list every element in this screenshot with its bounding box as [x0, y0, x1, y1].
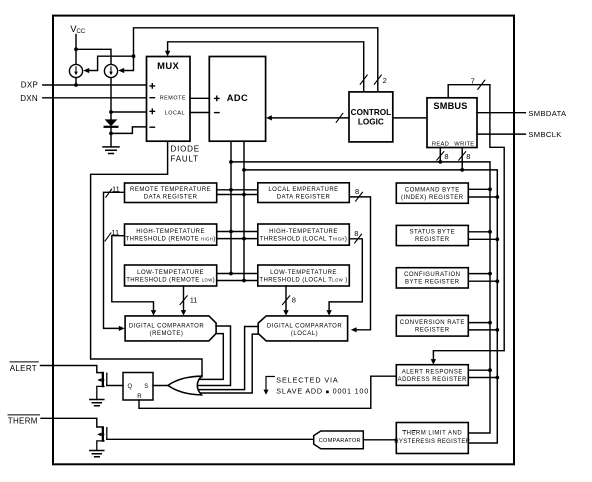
pin SMBCLK: [477, 133, 525, 135]
svg-text:REMOTE TEMPERATURE: REMOTE TEMPERATURE: [130, 187, 211, 193]
label SELECTED VIA SLAVE ADD: [276, 375, 369, 395]
wire remote comparator out1: [199, 326, 259, 393]
svg-text:ALERT: ALERT: [10, 364, 37, 373]
wire configuration stubs: [468, 274, 497, 282]
svg-text:THRESHOLD (REMOTE LOW): THRESHOLD (REMOTE LOW): [126, 278, 215, 284]
wire therm comparator to gate: [107, 438, 314, 440]
register HIGH THRESHOLD LOCAL: [258, 224, 350, 245]
register STATUS BYTE: [396, 225, 468, 245]
wire ADC data A: [229, 141, 233, 275]
wire or-gate to latch S: [107, 376, 397, 408]
block CONTROL LOGIC: [349, 92, 393, 142]
Vcc label: [70, 24, 86, 35]
wire 11-bus low-threshold to comparator: [180, 286, 187, 316]
svg-text:CONTROL: CONTROL: [351, 108, 391, 117]
comparator digital remote: [125, 316, 216, 341]
svg-text:8: 8: [444, 152, 448, 161]
comparator THERM: [314, 431, 364, 449]
register LOW THRESHOLD LOCAL: [258, 265, 350, 286]
or-gate U1: [168, 376, 202, 395]
wire command stubs: [468, 189, 497, 197]
register COMMAND BYTE: [396, 183, 468, 203]
wire DXP: [43, 84, 147, 86]
latch U2: [123, 373, 153, 401]
wire control-logic to current sources: [124, 28, 378, 92]
wire 8-bus local data to comparator: [349, 192, 370, 332]
svg-text:2: 2: [383, 76, 387, 85]
arrow selected-via pointer: [264, 377, 275, 395]
wire Vcc to I2: [76, 49, 111, 64]
register ALERT RESPONSE ADDRESS: [396, 365, 468, 386]
wire alert-response stubs: [468, 370, 497, 377]
svg-text:ADC: ADC: [227, 93, 248, 103]
block MUX: [147, 57, 191, 142]
svg-text:DXN: DXN: [20, 94, 38, 103]
wire THERM to transistor: [41, 418, 102, 427]
register LOW THRESHOLD REMOTE: [125, 265, 217, 286]
svg-text:WRITE: WRITE: [454, 142, 474, 148]
wire MUX to ADC local: [190, 112, 209, 114]
wire SMBUS read: [437, 148, 444, 164]
wire local comparator out1: [199, 327, 258, 390]
transistor Q2 THERM: [97, 426, 107, 450]
register REMOTE TEMPERATURE DATA: [125, 183, 217, 203]
svg-text:LOW-TEMPETATURE: LOW-TEMPETATURE: [137, 270, 204, 276]
svg-text:MUX: MUX: [157, 60, 179, 71]
pin THERM: [8, 415, 40, 426]
diode D1: [105, 119, 118, 126]
svg-text:LOW-TEMPETATURE: LOW-TEMPETATURE: [270, 270, 337, 276]
svg-text:11: 11: [112, 185, 120, 194]
svg-text:HYSTERESIS REGISTER: HYSTERESIS REGISTER: [394, 439, 470, 445]
svg-text:COMMAND BYTE: COMMAND BYTE: [405, 187, 460, 193]
svg-text:LOCAL: LOCAL: [165, 110, 185, 116]
svg-text:REMOTE: REMOTE: [160, 96, 186, 102]
wire I2 to diode: [110, 78, 112, 120]
svg-text:HIGH-TEMPETATURE: HIGH-TEMPETATURE: [136, 229, 205, 235]
svg-text:11: 11: [111, 228, 119, 237]
svg-text:DIGITAL COMPARATOR: DIGITAL COMPARATOR: [129, 323, 205, 329]
svg-text:(INDEX) REGISTER: (INDEX) REGISTER: [401, 195, 464, 201]
wire latch R loop to alert-response register: [139, 376, 396, 408]
svg-text:CONVERSION RATE: CONVERSION RATE: [400, 320, 465, 326]
current source I1: [69, 64, 82, 77]
pin ALERT: [10, 362, 39, 373]
svg-text:S: S: [144, 384, 148, 390]
pin SMBDATA: [477, 112, 525, 114]
svg-text:8: 8: [355, 187, 359, 196]
svg-text:ALERT RESPONSE: ALERT RESPONSE: [402, 369, 463, 375]
svg-text:7: 7: [471, 76, 475, 85]
svg-text:READ: READ: [432, 142, 449, 148]
comparator digital local: [258, 316, 347, 341]
svg-text:CONFIGURATION: CONFIGURATION: [404, 272, 460, 278]
arrow into alert-response register: [431, 359, 436, 365]
svg-text:THERM LIMIT AND: THERM LIMIT AND: [402, 431, 462, 437]
svg-text:LOGIC: LOGIC: [358, 117, 384, 126]
wire 8-bus local high to comparator: [326, 234, 362, 315]
wire 11-bus high-threshold to comparator: [105, 233, 156, 316]
wire write bus: [242, 168, 499, 443]
register CONFIGURATION BYTE: [396, 268, 468, 288]
node DXP-I1: [74, 83, 78, 87]
node diode bottom: [109, 132, 113, 136]
wire 8-bus local low to comparator: [283, 286, 290, 316]
svg-text:8: 8: [292, 295, 296, 304]
svg-text:R: R: [137, 394, 142, 400]
wire 7-bit address bus: [431, 80, 505, 364]
svg-text:SELECTED VIA: SELECTED VIA: [276, 375, 338, 384]
ground THERM transistor: [90, 451, 104, 457]
wire 11-bus remote data to comparator: [104, 189, 125, 331]
svg-text:LOCAL EMPERATURE: LOCAL EMPERATURE: [268, 187, 338, 193]
wire read bus: [229, 160, 492, 433]
block ADC: [209, 57, 265, 142]
wire control-logic to ADC: [272, 117, 350, 119]
svg-text:DXP: DXP: [21, 80, 38, 89]
chip outline: [53, 16, 514, 465]
svg-text:SMBUS: SMBUS: [433, 101, 467, 111]
wire ADC data B: [242, 141, 246, 282]
svg-text:Q: Q: [127, 384, 132, 390]
wire control-logic to SMBUS: [393, 117, 427, 119]
node control branch: [132, 54, 136, 58]
svg-text:DIODE: DIODE: [171, 145, 200, 154]
node Vcc junction: [74, 47, 78, 51]
svg-text:11: 11: [190, 295, 198, 304]
svg-text:VCC: VCC: [70, 24, 86, 35]
svg-text:DATA REGISTER: DATA REGISTER: [144, 195, 198, 201]
svg-text:REGISTER: REGISTER: [415, 237, 450, 243]
label DIODE FAULT: [171, 145, 200, 164]
wire register row links: [217, 190, 258, 281]
bus slash pair: [360, 75, 381, 84]
node local branch: [109, 110, 113, 114]
wire Vcc down: [75, 35, 77, 65]
svg-text:(REMOTE): (REMOTE): [150, 331, 184, 337]
svg-text:8: 8: [466, 152, 470, 161]
svg-text:ADDRESS REGISTER: ADDRESS REGISTER: [398, 377, 468, 383]
wire conversion stubs: [468, 323, 497, 330]
block SMBUS: [427, 98, 477, 148]
wire control-logic to MUX: [168, 42, 364, 92]
svg-text:THERM: THERM: [8, 417, 38, 426]
wire branch to I1: [90, 56, 134, 70]
bus slash 7: [478, 80, 485, 89]
register LOCAL TEMPERATURE DATA: [258, 183, 350, 203]
register THERM LIMIT: [394, 423, 470, 454]
svg-text:STATUS BYTE: STATUS BYTE: [409, 230, 455, 236]
svg-text:REGISTER: REGISTER: [415, 328, 450, 334]
wire diode to MUX minus: [111, 127, 147, 133]
ground ALERT transistor: [90, 400, 104, 406]
wire MUX to ADC remote: [190, 97, 209, 99]
wire I1 bottom: [75, 78, 77, 85]
svg-text:BYTE REGISTER: BYTE REGISTER: [405, 280, 460, 286]
wire diode to ground: [110, 133, 112, 147]
bus slash: [336, 113, 343, 122]
svg-text:(LOCAL): (LOCAL): [291, 331, 318, 337]
svg-text:FAULT: FAULT: [171, 154, 199, 163]
arrow into I2: [118, 68, 124, 73]
svg-text:SMBCLK: SMBCLK: [528, 130, 561, 139]
arrow into MUX top: [165, 51, 170, 57]
svg-text:8: 8: [354, 229, 358, 238]
svg-text:DATA REGISTER: DATA REGISTER: [277, 195, 331, 201]
wire status stubs: [468, 232, 497, 240]
transistor Q1 ALERT: [97, 372, 107, 400]
wire therm register to comparator: [363, 439, 396, 441]
ground diode: [103, 147, 119, 154]
wire ALERT to transistor: [41, 366, 102, 373]
wire local comparator out2: [200, 334, 258, 393]
svg-text:COMPARATOR: COMPARATOR: [319, 438, 361, 444]
current source I2: [104, 64, 117, 77]
wire SMBUS write: [459, 148, 466, 172]
svg-text:SLAVE ADD ■ 0001 100: SLAVE ADD ■ 0001 100: [276, 387, 369, 396]
wire remote comparator out2: [200, 334, 224, 380]
register CONVERSION RATE: [396, 315, 468, 336]
arrow into I1: [83, 68, 89, 73]
wire local plus input: [111, 111, 147, 113]
wire DXN: [43, 97, 147, 99]
wire latch Q to transistor gate: [107, 385, 123, 387]
wire diode-fault MUX to OR gate: [91, 141, 202, 377]
arrow into ADC: [266, 115, 272, 120]
register HIGH THRESHOLD REMOTE: [125, 224, 217, 245]
svg-text:SMBDATA: SMBDATA: [528, 109, 567, 118]
svg-text:HIGH-TEMPETATURE: HIGH-TEMPETATURE: [269, 229, 338, 235]
svg-text:DIGITAL COMPARATOR: DIGITAL COMPARATOR: [267, 323, 343, 329]
